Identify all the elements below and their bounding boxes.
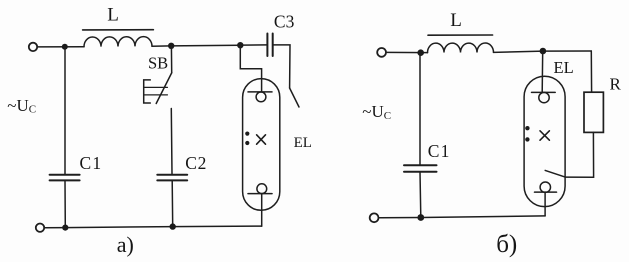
switch blade (starter contact at lamp EL right side) <box>290 88 299 107</box>
terminal (right circuit, bottom input) <box>370 213 379 222</box>
lamp EL bottom electrode circle (right) <box>540 182 550 192</box>
switch SB contact line (upper) <box>145 86 168 88</box>
lamp EL top electrode circle <box>256 92 266 102</box>
svg-text:~UC: ~UC <box>362 102 391 122</box>
node (junction of C1 branch, right top) <box>417 49 424 56</box>
wire (junction down to switch SB) <box>170 46 172 73</box>
wire (top junction down to capacitor C1, left) <box>64 47 66 174</box>
svg-text:EL: EL <box>554 58 574 77</box>
svg-text:~UC: ~UC <box>7 96 36 116</box>
wire (junction to capacitor C3) <box>244 44 267 46</box>
node (bottom junction of C1 branch, right) <box>417 214 424 221</box>
svg-text:EL: EL <box>294 135 312 151</box>
terminal (left circuit, top input) <box>29 43 37 51</box>
node (bottom junction of C1 branch, left) <box>62 225 68 231</box>
wire (bar above inductor L, left) <box>83 29 154 31</box>
terminal (right circuit, top input) <box>377 48 386 57</box>
node (junction feeding lamp EL, right) <box>540 48 547 55</box>
wire (capacitor C1 to bottom wire, right) <box>419 172 422 218</box>
wire (capacitor C2 to bottom wire) <box>171 180 174 226</box>
capacitor C1 (right circuit) <box>404 165 437 172</box>
switch SB actuator bracket <box>144 80 151 103</box>
lamp EL tube (right circuit) <box>524 76 565 206</box>
svg-text:C1: C1 <box>428 141 451 161</box>
wire (capacitor C1 to bottom wire, left) <box>64 180 66 227</box>
wire (top corner down to resistor R) <box>590 51 592 92</box>
node (junction feeding SB/C2 branch) <box>168 43 174 49</box>
wire (resistor R bottom lead to lamp) <box>565 132 593 177</box>
svg-text:R: R <box>610 75 622 94</box>
switch blade (lamp EL bottom contact to R) <box>545 170 565 177</box>
capacitor C1 (left circuit) <box>50 175 80 181</box>
wire (top-left terminal to inductor) <box>37 46 84 48</box>
lamp EL glow dot (lower) <box>245 141 249 145</box>
svg-text:C3: C3 <box>274 11 295 31</box>
wire (junction down to lamp EL top electrode, right) <box>541 51 544 92</box>
terminal (left circuit, bottom input) <box>36 224 44 232</box>
lamp EL cross mark (right) <box>540 131 549 140</box>
lamp EL glow dot (upper) <box>245 132 249 136</box>
lamp EL bottom electrode bar <box>248 193 272 195</box>
svg-text:C2: C2 <box>185 153 207 173</box>
svg-text:а): а) <box>117 232 134 257</box>
wire (bottom wire of right circuit) <box>379 216 545 218</box>
wire (junction to lamp EL top electrode) <box>240 45 261 92</box>
wire (lamp EL bottom electrode to bottom wire) <box>261 194 263 227</box>
node (junction of C1 branch on top wire) <box>62 44 68 50</box>
svg-text:L: L <box>450 10 462 31</box>
lamp EL top electrode bar (right) <box>532 91 556 93</box>
node (junction feeding lamp branch and C3) <box>237 42 243 48</box>
lamp EL bottom electrode circle <box>257 184 267 194</box>
lamp EL tube (left circuit) <box>243 79 280 211</box>
wire (bottom wire of left circuit) <box>65 226 261 228</box>
resistor R <box>584 92 603 132</box>
lamp EL top electrode circle (right) <box>539 92 549 102</box>
lamp EL top electrode bar <box>248 91 272 93</box>
svg-text:б): б) <box>496 231 517 258</box>
svg-text:SB: SB <box>148 53 168 72</box>
switch SB contact line (lower) <box>145 94 168 96</box>
wire (switch SB to capacitor C2) <box>170 109 173 174</box>
wire (lamp EL bottom electrode down to bottom wire, right) <box>544 192 546 216</box>
inductor L (left circuit) <box>84 37 152 47</box>
wire (inductor to top-right corner) <box>494 51 592 52</box>
wire (top-right terminal to inductor) <box>386 51 427 53</box>
lamp EL cross mark <box>257 135 266 144</box>
wire (bar above inductor L, right) <box>428 34 493 36</box>
svg-text:L: L <box>107 5 119 26</box>
lamp EL glow dot lower (right) <box>525 137 529 141</box>
wire (inductor to C3 junction along top) <box>152 45 240 46</box>
wire (capacitor C3 to right drop) <box>273 45 290 88</box>
inductor L (right circuit) <box>427 43 493 53</box>
wire (bottom terminal to C1 junction) <box>44 227 65 229</box>
wire (top junction down to capacitor C1, right) <box>419 53 421 165</box>
capacitor C2 <box>157 175 187 181</box>
capacitor C3 <box>267 34 272 57</box>
svg-text:C1: C1 <box>80 153 103 173</box>
node (bottom junction of C2 branch) <box>170 223 176 229</box>
lamp EL glow dot upper (right) <box>525 126 529 130</box>
switch SB blade <box>156 73 172 104</box>
lamp EL bottom electrode bar (right) <box>535 191 557 193</box>
